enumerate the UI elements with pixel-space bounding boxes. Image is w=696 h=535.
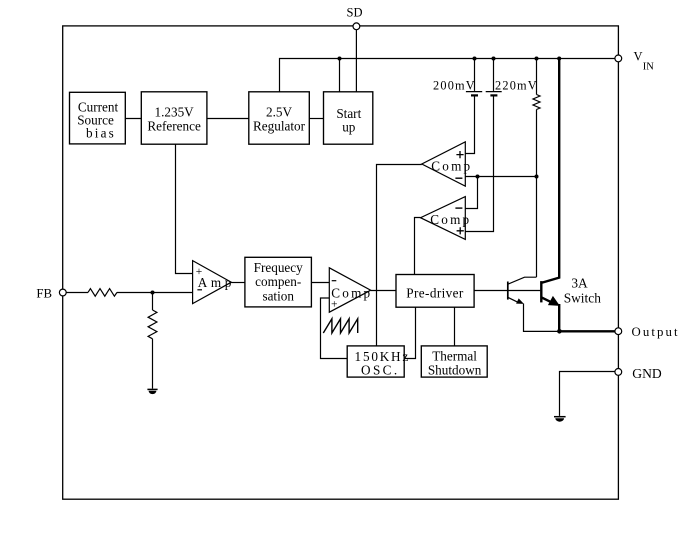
block Pre-driver: [396, 275, 474, 308]
svg-text:Comp: Comp: [331, 286, 372, 301]
svg-text:Switch: Switch: [564, 290, 602, 305]
junction node sense line / comparator2 branch: [476, 175, 480, 179]
pin GND: [615, 366, 662, 381]
wire GND pin to ground: [560, 372, 615, 416]
block 1.235V Reference: [141, 92, 207, 144]
label 3A Switch: [564, 275, 602, 305]
ground symbol (FB divider): [147, 389, 157, 394]
transistor Q2 collector to rail: [541, 59, 559, 283]
chip outline border: [63, 26, 619, 499]
wire Q1 emitter to output node: [524, 304, 560, 332]
wire FB node down: [152, 293, 154, 311]
wire 200mV source to comparator1 + input: [465, 96, 474, 154]
svg-text:SD: SD: [347, 6, 363, 20]
svg-text:OSC.: OSC.: [361, 363, 400, 378]
svg-text:V: V: [634, 50, 643, 64]
wire reference to amp + input: [176, 144, 193, 273]
wire node to comparator2 - input: [465, 177, 477, 209]
wire amp output: [231, 282, 245, 284]
block Start up: [324, 92, 373, 144]
svg-text:220mV: 220mV: [495, 78, 538, 92]
svg-text:Shutdown: Shutdown: [428, 363, 482, 378]
block Current Source bias: [70, 92, 126, 144]
wire current-limit comparator output to OSC: [377, 165, 422, 346]
wire VIN rail: [280, 59, 615, 92]
pin SD: [347, 6, 363, 30]
wire regulator to start-up: [309, 118, 323, 120]
junction node rail/220mV: [492, 57, 496, 61]
svg-text:Pre-driver: Pre-driver: [406, 286, 464, 301]
battery V2 220mV: [486, 92, 502, 96]
svg-text:Regulator: Regulator: [253, 118, 306, 133]
wire output node to Output pin: [559, 330, 614, 332]
svg-text:Thermal: Thermal: [432, 349, 477, 364]
junction node sense line / resistor: [535, 175, 539, 179]
svg-text:GND: GND: [632, 366, 662, 381]
wire rail to 220mV source: [493, 59, 495, 91]
op-amp error amplifier Amp: [193, 261, 235, 304]
wire compensation to comp - input: [311, 282, 329, 284]
svg-text:FB: FB: [36, 286, 52, 300]
wire Q2 emitter to output node: [558, 304, 560, 331]
svg-text:Reference: Reference: [147, 118, 201, 133]
svg-text:Comp: Comp: [431, 158, 472, 173]
svg-text:bias: bias: [86, 126, 116, 141]
comparator U2 dropout Comp (220mV): [421, 197, 472, 240]
svg-text:Comp: Comp: [430, 212, 471, 227]
wire bias to reference: [125, 118, 141, 120]
svg-text:sation: sation: [262, 288, 294, 303]
junction node rail/switch collector: [557, 57, 561, 61]
block 150KHz OSC: [347, 346, 410, 378]
svg-text:Amp: Amp: [198, 275, 235, 290]
wire rail to 200mV source: [474, 59, 476, 91]
wire osc to comp + input: [321, 298, 348, 359]
resistor R3 (current sense): [533, 95, 540, 110]
transistor Q1 driver: base bar: [507, 282, 509, 300]
wire rail to sense resistor: [536, 59, 538, 95]
svg-text:200mV: 200mV: [433, 78, 476, 92]
wire OSC to pre-driver bottom: [404, 307, 415, 358]
block 2.5V Regulator: [249, 92, 309, 144]
transistor Q2 3A switch: base bar: [540, 281, 542, 302]
svg-text:IN: IN: [643, 62, 654, 73]
wire sense resistor to Q1 collector: [536, 110, 538, 278]
ground symbol (GND pin): [554, 417, 566, 422]
transistor Q1 emitter with arrow: [508, 297, 524, 304]
battery V1 200mV: [466, 92, 482, 96]
svg-text:3A: 3A: [571, 275, 588, 290]
svg-text:compen-: compen-: [255, 274, 301, 289]
transistor Q2 emitter with arrow: [541, 296, 560, 306]
transistor Q1 collector: [508, 277, 537, 284]
junction node rail/sense resistor: [535, 57, 539, 61]
block Thermal Shutdown: [421, 346, 487, 378]
wire pre-driver to switch bases: [474, 290, 540, 292]
junction node FB divider: [151, 291, 155, 295]
svg-text:2.5V: 2.5V: [266, 105, 292, 120]
svg-text:Output: Output: [632, 325, 680, 339]
resistor R2 (FB to ground): [148, 310, 157, 339]
comparator U1 current-limit Comp (200mV): [422, 142, 473, 186]
svg-text:up: up: [342, 120, 356, 135]
pin VIN: [615, 50, 654, 73]
wire comp output to pre-driver: [371, 290, 396, 292]
wire comparator2 output to pre-driver top: [415, 218, 421, 275]
svg-text:Frequecy: Frequecy: [254, 260, 303, 275]
wire 220mV source to comparator2 + input: [465, 96, 493, 232]
wire comparator1 - input sense line: [465, 176, 536, 178]
junction node emitter / output: [557, 329, 562, 334]
wire SD drop to Start up: [355, 30, 357, 92]
block Frequecy compensation: [245, 257, 312, 307]
wire FB input segment: [66, 292, 88, 294]
svg-text:1.235V: 1.235V: [154, 105, 194, 120]
pin Output: [615, 325, 680, 339]
wire reference to regulator: [207, 118, 249, 120]
sawtooth waveform icon: [323, 319, 357, 333]
wire rail branch into Start up: [339, 59, 341, 92]
wire R2 to ground: [152, 339, 154, 389]
junction node on rail at start-up branch: [338, 57, 342, 61]
pin FB: [36, 286, 66, 300]
comparator PWM Comp: [329, 268, 372, 312]
wire FB node to amp - input: [117, 292, 193, 294]
resistor R1 (FB series): [88, 289, 117, 297]
junction node rail/200mV: [473, 57, 477, 61]
wire thermal shutdown to pre-driver: [454, 307, 456, 346]
